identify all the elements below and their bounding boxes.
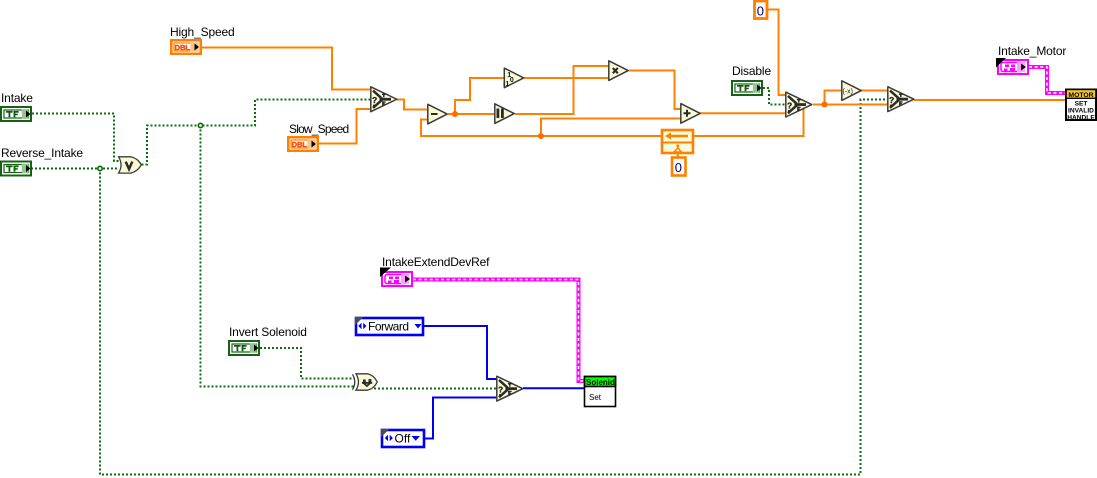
add node xyxy=(681,104,700,124)
numeric constant 0 top xyxy=(755,1,768,19)
svg-text:0: 0 xyxy=(675,160,682,175)
wire: Slow_Speed orange to select A F input xyxy=(319,109,370,144)
wire: negate output to select C T input xyxy=(861,90,887,92)
absolute value node xyxy=(495,104,514,124)
junction dot green on OR output wire xyxy=(198,123,202,127)
svg-text:Forward: Forward xyxy=(368,320,409,334)
svg-text:High_Speed: High_Speed xyxy=(170,25,235,39)
svg-text:Slow_Speed: Slow_Speed xyxy=(289,122,349,136)
numeric control High_Speed DBL xyxy=(170,39,202,55)
enum constant Off xyxy=(381,429,424,447)
wire: sign output to multiply lower input xyxy=(524,77,609,79)
svg-text:Reverse_Intake: Reverse_Intake xyxy=(1,146,83,160)
wire: subtract output branch up to sign input xyxy=(455,78,504,114)
reference control Intake_Motor xyxy=(996,58,1029,75)
wire: multiply output down to add upper input xyxy=(629,71,680,110)
wire: High_Speed orange to select A T input xyxy=(202,48,370,90)
wire: subtract output to absolute value input xyxy=(448,113,494,115)
svg-text:Set: Set xyxy=(589,393,602,402)
reference control IntakeExtendDevRef xyxy=(380,268,413,288)
wire: feedback node output left to subtract lower input xyxy=(421,120,662,137)
boolean control Reverse_Intake TF xyxy=(0,161,32,177)
multiply node xyxy=(609,61,628,81)
select B disable chooser xyxy=(786,92,812,117)
numeric constant 0 feedback initializer xyxy=(672,158,686,176)
enum constant Forward xyxy=(355,317,423,335)
svg-text:0: 0 xyxy=(510,77,514,84)
wire: add output to select B F input xyxy=(700,112,785,114)
wire: Forward enum blue to select D T input xyxy=(424,326,496,379)
wire: numeric constant 0 to select B T input xyxy=(767,10,785,96)
OR gate xyxy=(119,157,142,173)
svg-text:Intake: Intake xyxy=(1,91,33,105)
motor set invalid handle node xyxy=(1066,90,1096,122)
svg-text:Invert Solenoid: Invert Solenoid xyxy=(229,325,307,339)
subtract node xyxy=(428,104,447,124)
boolean control Disable TF xyxy=(731,80,763,96)
boolean control Intake TF xyxy=(0,106,32,122)
wire: absolute output up to multiply upper input xyxy=(515,66,609,114)
negate node xyxy=(842,81,861,101)
junction dot green on Reverse_Intake wire xyxy=(98,166,102,170)
wire: branch up to negate input xyxy=(825,91,842,105)
wire: select A output to subtract top input xyxy=(397,100,427,110)
boolean control Invert Solenoid TF xyxy=(228,340,260,356)
wire: OR output dotted to select A selector xyxy=(142,100,371,165)
svg-text:IntakeExtendDevRef: IntakeExtendDevRef xyxy=(382,255,490,269)
property node Solenoid Set xyxy=(585,377,616,407)
svg-text:MOTOR: MOTOR xyxy=(1068,92,1093,99)
select C reverse chooser xyxy=(888,87,914,112)
wire: Reverse_Intake branch down, bottom run, up to select C selector xyxy=(100,100,887,475)
select A speed chooser xyxy=(371,87,397,112)
svg-text:Solenid: Solenid xyxy=(586,378,615,387)
junction dot orange at select B output xyxy=(822,102,828,108)
wire: Reverse_Intake boolean dotted to OR gate xyxy=(31,168,119,170)
wire: OR output branch down to XOR lower input xyxy=(201,126,355,387)
feedback node xyxy=(662,130,693,158)
wire: feedback branch up to add lower input xyxy=(541,119,680,137)
svg-text:Off: Off xyxy=(395,432,411,446)
wire: IntakeExtendDevRef pink dashed to Solenoid property node xyxy=(413,280,584,382)
wire: select C output to motor node xyxy=(914,99,1065,101)
svg-text:SET: SET xyxy=(1075,100,1088,107)
svg-text:HANDLE: HANDLE xyxy=(1067,114,1095,121)
svg-text:Intake_Motor: Intake_Motor xyxy=(998,44,1066,58)
svg-text:INVALID: INVALID xyxy=(1068,107,1094,114)
wire: Intake boolean dotted to OR gate xyxy=(32,114,119,162)
svg-text:(-x): (-x) xyxy=(843,88,854,95)
wire: Invert Solenoid dotted to XOR upper input xyxy=(260,348,354,379)
wire: Disable dotted to select B selector xyxy=(763,88,785,105)
wire: select D output to Solenoid property node xyxy=(523,387,584,389)
svg-text:Disable: Disable xyxy=(732,64,771,78)
wire: select B output to select C F input xyxy=(813,104,887,106)
numeric control Slow_Speed DBL xyxy=(287,136,319,152)
junction dot orange at subtract output xyxy=(452,111,458,117)
wire: Intake_Motor reference pink dashed to motor node xyxy=(1029,67,1065,93)
sign node xyxy=(503,68,524,88)
junction dot orange at feedback branch xyxy=(538,133,544,139)
wire: Off enum blue to select D F input xyxy=(425,398,496,439)
select D solenoid chooser xyxy=(497,376,523,401)
wire: select B lower tap to feedback node input xyxy=(693,108,804,136)
svg-text:0: 0 xyxy=(757,3,764,18)
XOR gate xyxy=(353,374,378,390)
svg-text:-1: -1 xyxy=(503,81,509,88)
wire: XOR output dotted to select D selector xyxy=(374,388,496,390)
